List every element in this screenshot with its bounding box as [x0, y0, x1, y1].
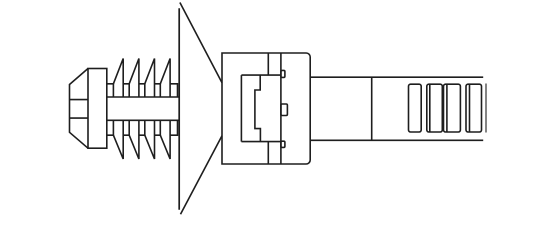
- flange cone upper edge: [180, 3, 222, 83]
- strap top edge: [310, 76, 483, 78]
- middle tab: [281, 104, 288, 116]
- head strap-side wall: [280, 53, 282, 164]
- top barb 4: [155, 59, 171, 98]
- flange cone lower edge: [181, 136, 223, 215]
- channel top edge: [241, 74, 281, 76]
- channel bottom edge: [241, 141, 281, 143]
- nose cone facet line lower: [70, 117, 89, 119]
- top barb 1: [107, 59, 123, 98]
- top barb 2: [123, 59, 139, 98]
- head inner vertical upper: [267, 53, 269, 75]
- top barb 3: [139, 59, 155, 98]
- tooth D: [466, 84, 482, 132]
- tooth C: [444, 84, 461, 132]
- channel left wall: [240, 75, 242, 142]
- shaft bottom line: [107, 119, 179, 121]
- bottom end segment: [170, 120, 177, 135]
- strap bottom edge: [310, 139, 483, 141]
- pawl: [255, 75, 261, 142]
- bottom barb 2: [123, 120, 139, 159]
- flange face line: [178, 8, 180, 210]
- shaft top line: [107, 96, 179, 98]
- bottom barb 4: [155, 120, 171, 159]
- top tab: [281, 70, 285, 77]
- strap end mark: [485, 84, 487, 133]
- top end segment: [170, 84, 177, 97]
- head outline: [222, 53, 310, 164]
- head inner vertical lower: [267, 142, 269, 164]
- tooth A: [409, 84, 422, 132]
- fir-tree nose cone: [70, 69, 89, 149]
- bottom barb 3: [139, 120, 155, 159]
- bottom tab: [281, 141, 285, 147]
- collar: [88, 69, 107, 149]
- tooth B: [427, 84, 443, 132]
- strap divider: [371, 77, 373, 140]
- bottom barb 1: [107, 120, 123, 159]
- nose cone facet line upper: [70, 99, 89, 101]
